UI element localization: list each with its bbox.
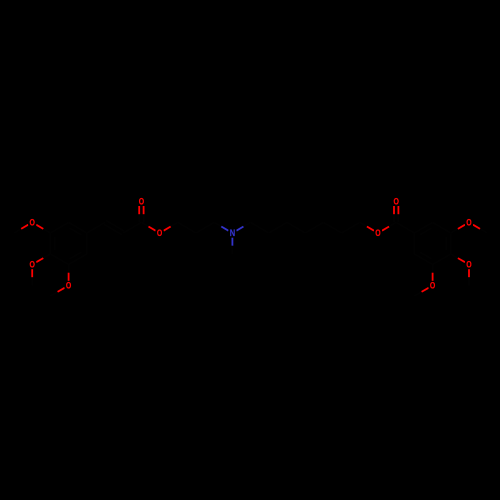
bond CH2-CH2 b: [196, 222, 214, 233]
atom label Oc2 (O): [392, 197, 400, 206]
wire: ring2 bond C1-C6: [413, 233, 415, 254]
atom label N (N): [228, 228, 236, 237]
atom label O6 (O): [429, 281, 437, 290]
bond O2-CH3: [31, 269, 33, 277]
ring2 aromatic inner line 2: [420, 252, 432, 259]
atom label O1 (O): [28, 218, 36, 227]
wire: ring2 bond C5-C4: [433, 254, 451, 265]
atom label O3 (O): [65, 281, 73, 290]
bond chain c8-c9: [323, 222, 341, 233]
bond chain c7-c8: [305, 222, 323, 233]
svg-text:O: O: [466, 218, 472, 228]
svg-text:O: O: [30, 260, 36, 270]
wire: ring1 bond C2-C3: [50, 222, 68, 233]
bond C5-O3: [68, 265, 70, 273]
bond C4-O2: [43, 254, 50, 258]
double bond CH=CH: [104, 224, 122, 235]
bond chain c6-c7: [287, 222, 305, 233]
bond N-CH2: [236, 227, 243, 231]
bond O-CH2: [164, 227, 171, 231]
wire: ring1 bond C4-C5: [50, 254, 68, 265]
bond C(=O)-ring2: [396, 222, 414, 233]
ring2 aromatic inner line 3: [420, 228, 432, 235]
wire: ring2 bond C4-C3: [450, 233, 452, 254]
bond O3-CH3: [58, 288, 65, 292]
bond C3-O4: [451, 229, 458, 233]
bond CH2-N: [214, 222, 221, 226]
wire: ring1 bond C5-C6: [69, 254, 87, 265]
bond C3-O1: [43, 229, 50, 233]
ring2 aromatic inner line 1: [445, 237, 447, 250]
bond chain c5-c6: [269, 222, 287, 233]
bond CH2-CH2 a: [178, 222, 196, 233]
bond O-C(=O) ester 2: [382, 227, 389, 231]
bond chain c4-c5: [251, 222, 269, 233]
double bond C=O carbonyl 1: [143, 214, 145, 222]
bond N-CH3: [231, 238, 233, 246]
bond O6-CH3: [422, 288, 429, 292]
bond O5-CH3: [468, 269, 470, 277]
wire: ring1 bond C1-C2: [69, 222, 87, 233]
wire: ring2 bond C3-C2: [433, 222, 451, 233]
svg-text:O: O: [157, 228, 163, 238]
atom label O4 (O): [465, 218, 473, 227]
svg-text:O: O: [375, 228, 381, 238]
svg-text:O: O: [30, 218, 36, 228]
double bond C=O carbonyl 2: [397, 214, 399, 222]
svg-text:O: O: [466, 260, 472, 270]
bond C(=O)-O ester 1: [141, 222, 148, 226]
svg-text:O: O: [139, 197, 145, 207]
ring1 aromatic inner line 2: [70, 252, 82, 259]
bond chain c9-c10: [342, 222, 360, 233]
wire: ring2 bond C6-C5: [414, 254, 432, 265]
wire: ring1 bond C6-C1: [86, 233, 88, 254]
bond ring1-CH vinyl: [87, 222, 105, 233]
atom label Oc1 (O): [137, 197, 145, 206]
bond O1-CH3: [21, 225, 28, 229]
svg-text:N: N: [230, 228, 235, 238]
svg-text:O: O: [66, 281, 72, 291]
atom label Oe1 (O): [156, 228, 164, 237]
bond CH-C(=O): [123, 222, 141, 233]
atom label Oe2 (O): [374, 228, 382, 237]
bond CH2-O ester 2: [360, 222, 367, 226]
bond O4-CH3: [473, 225, 480, 229]
ring1 aromatic inner line 3: [70, 228, 82, 235]
atom label O5 (O): [465, 260, 473, 269]
atom label O2 (O): [28, 260, 36, 269]
svg-text:O: O: [430, 281, 436, 291]
bond C5-O6: [432, 265, 434, 273]
wire: ring1 bond C3-C4: [49, 233, 51, 254]
svg-text:O: O: [394, 197, 400, 207]
ring1 aromatic inner line 1: [54, 237, 56, 250]
wire: ring2 bond C2-C1: [414, 222, 432, 233]
bond C4-O5: [451, 254, 458, 258]
